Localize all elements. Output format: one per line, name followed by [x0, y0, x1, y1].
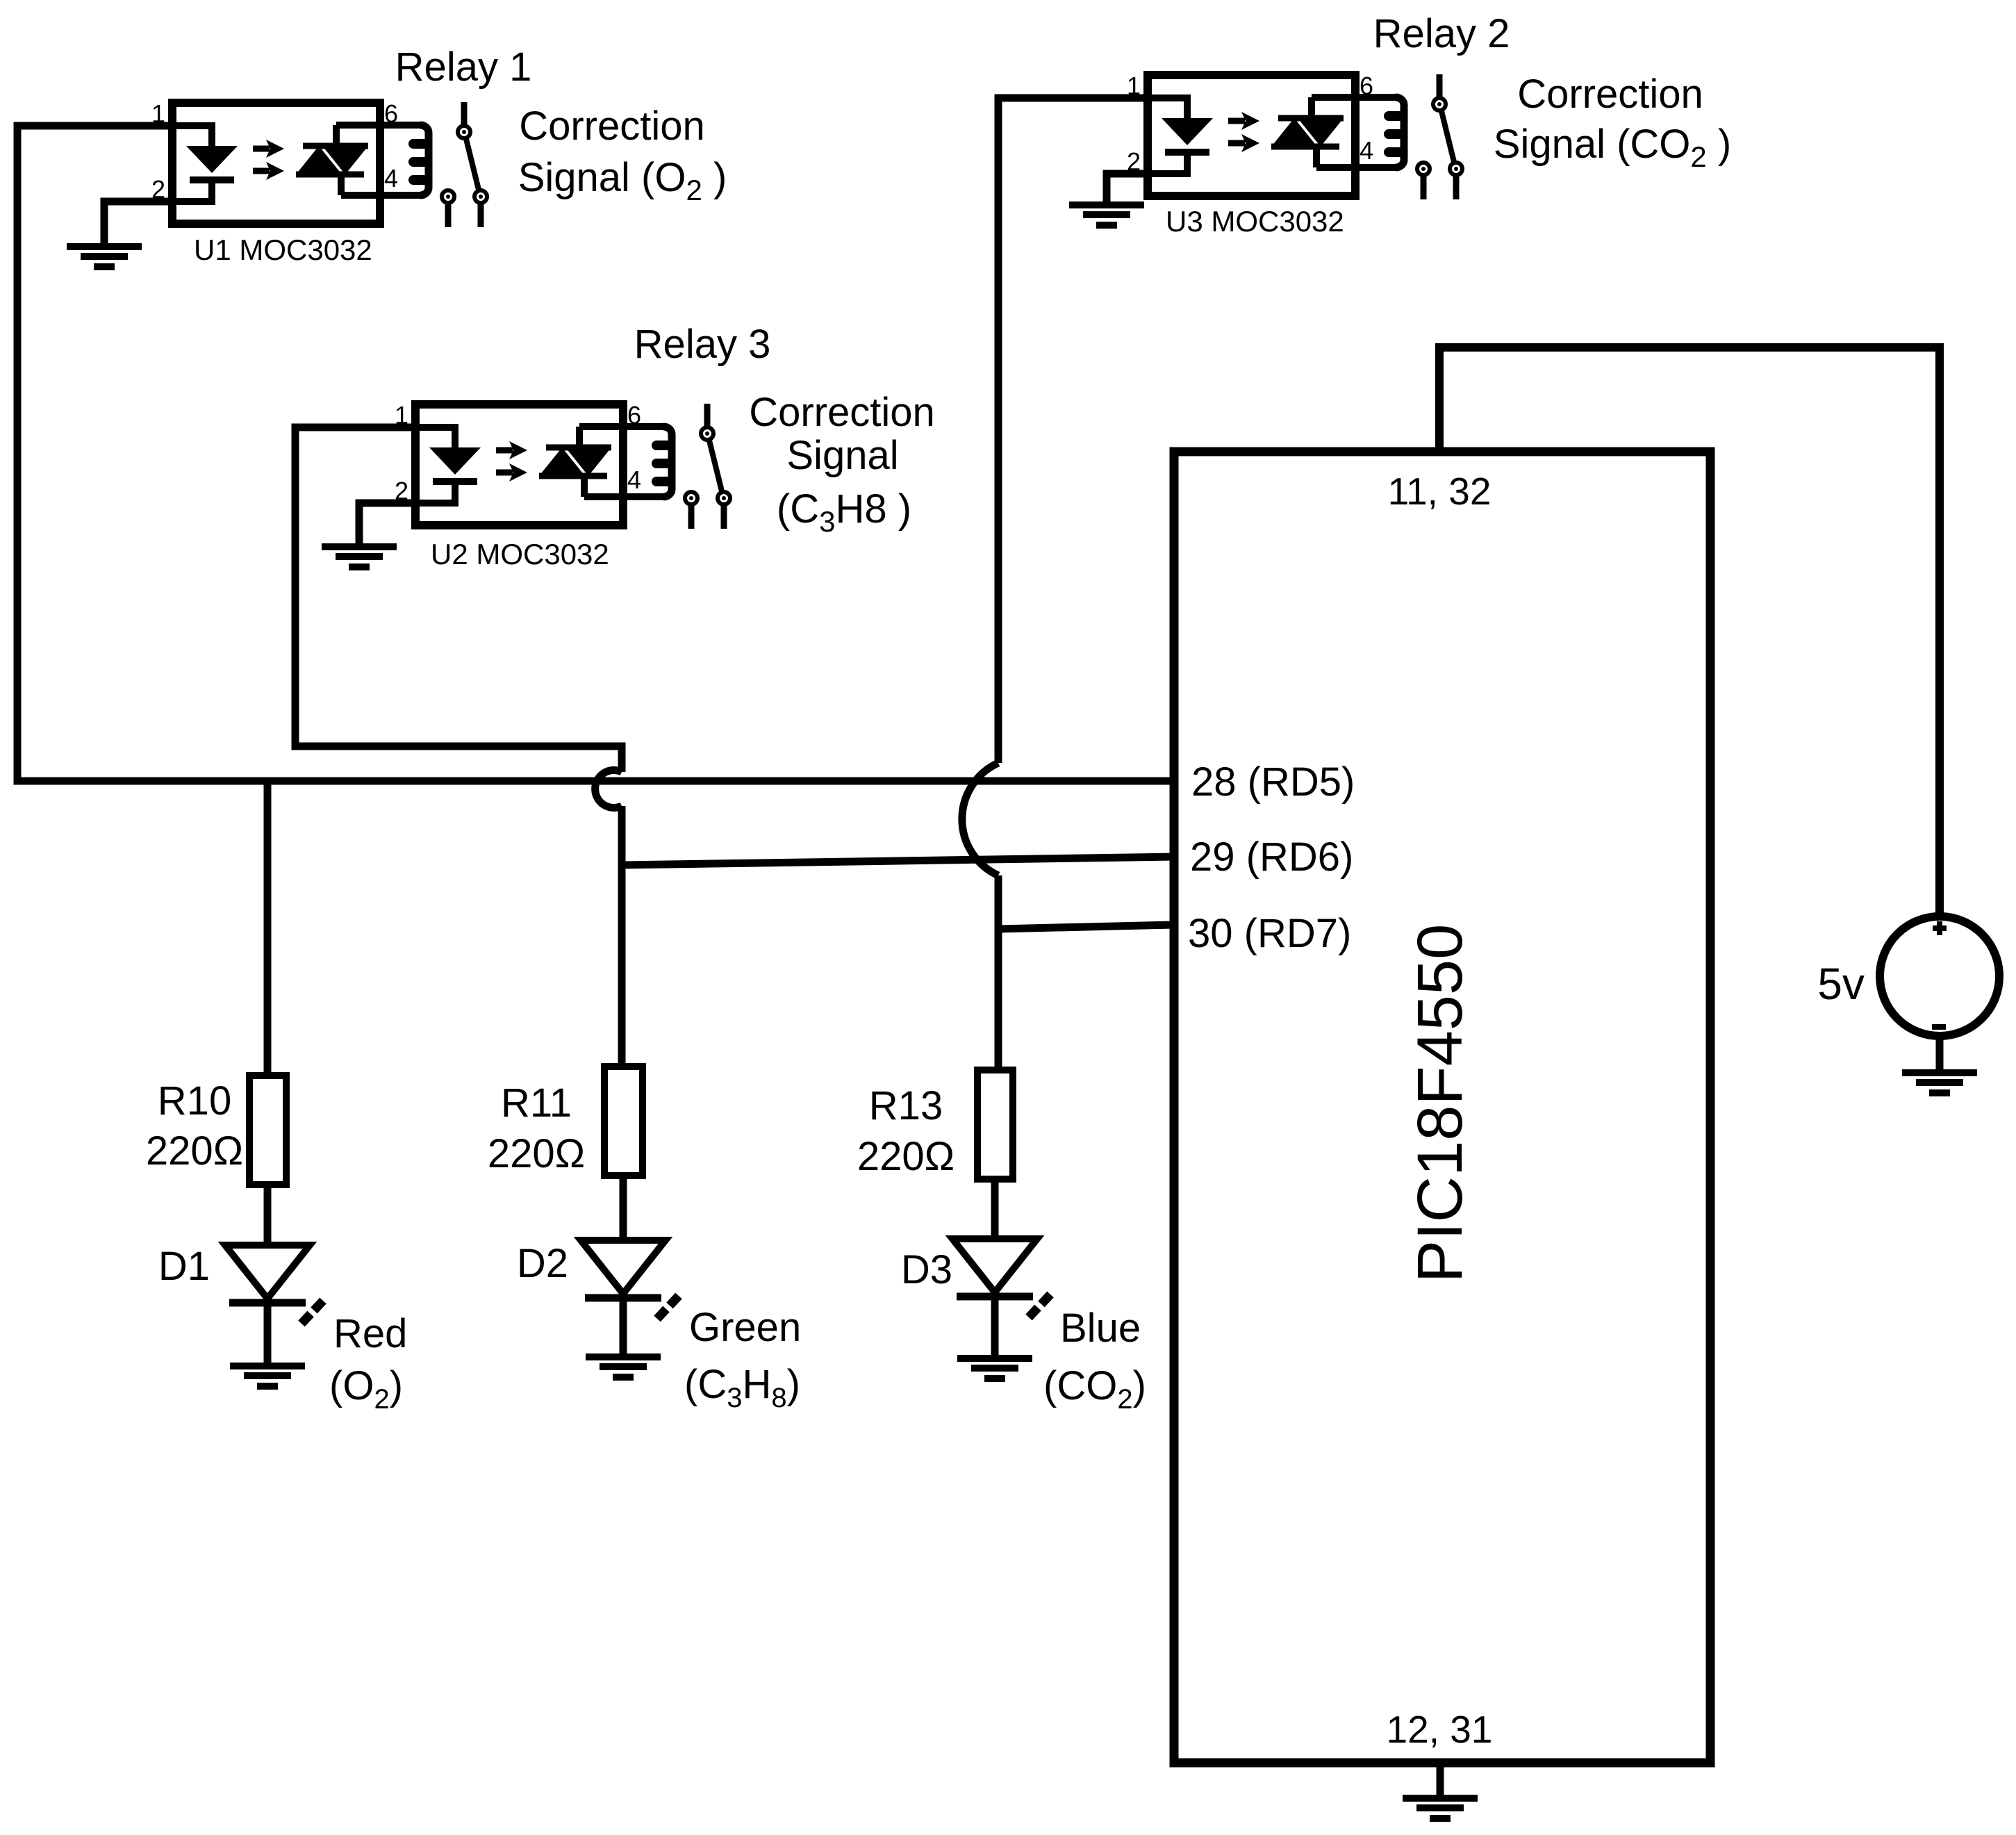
svg-text:Signal: Signal: [786, 433, 898, 478]
svg-text:220Ω: 220Ω: [488, 1131, 585, 1176]
svg-text:D2: D2: [517, 1241, 568, 1286]
svg-text:U2 MOC3032: U2 MOC3032: [431, 538, 609, 570]
svg-text:Correction: Correction: [1517, 72, 1703, 117]
svg-text:R11: R11: [501, 1080, 572, 1126]
wire hop over RD5 and RD6: [962, 763, 998, 875]
ground PIC 12,31: [1403, 1798, 1478, 1818]
wire R11 to D2: [620, 1172, 627, 1242]
wire D3 to ground: [991, 1297, 999, 1358]
wire U2 pin2 to ground: [359, 503, 415, 547]
ground D3: [957, 1358, 1032, 1379]
svg-text:5v: 5v: [1817, 959, 1865, 1009]
microcontroller U4 PIC18F4550: [1174, 452, 1710, 1763]
wire R13 to D3: [991, 1176, 999, 1241]
wire 5v supply from PIC 11,32: [1439, 347, 1940, 914]
wire net RD7 to PIC pin 30: [998, 925, 1174, 929]
svg-text:30 (RD7): 30 (RD7): [1188, 911, 1351, 956]
resistor R13: [977, 1070, 1013, 1179]
svg-text:U3 MOC3032: U3 MOC3032: [1166, 205, 1344, 238]
svg-text:Blue: Blue: [1060, 1306, 1141, 1351]
svg-text:29 (RD6): 29 (RD6): [1190, 834, 1353, 880]
svg-text:220Ω: 220Ω: [146, 1128, 243, 1174]
resistor R10: [249, 1076, 286, 1185]
svg-text:D1: D1: [158, 1244, 210, 1289]
wire R10 to D1: [264, 1181, 272, 1247]
svg-text:Correction: Correction: [519, 104, 705, 149]
wire net U3 pin1 down to big hop: [998, 98, 1148, 763]
svg-text:R10: R10: [158, 1078, 231, 1124]
wire D2 to ground: [620, 1298, 627, 1357]
svg-text:Relay 3: Relay 3: [634, 322, 771, 367]
ground U3: [1069, 205, 1144, 225]
wire U1 pin2 to ground: [104, 201, 172, 247]
wire hop over RD5: [595, 771, 622, 808]
wire from hop to R13: [995, 875, 1002, 1077]
svg-text:Correction: Correction: [749, 390, 935, 435]
wire net RD6 to PIC pin 29: [622, 857, 1174, 865]
ground D1: [230, 1366, 305, 1386]
wire net U2 pin1 down to hop: [295, 427, 622, 772]
svg-text:Relay 2: Relay 2: [1373, 11, 1510, 56]
svg-text:11, 32: 11, 32: [1388, 470, 1492, 513]
svg-text:28 (RD5): 28 (RD5): [1191, 759, 1355, 805]
wire branch to R10: [264, 781, 272, 1084]
svg-text:PIC18F4550: PIC18F4550: [1405, 924, 1476, 1283]
wire PIC 12,31 to ground: [1437, 1763, 1444, 1798]
resistor R11: [604, 1067, 643, 1176]
svg-text:U1 MOC3032: U1 MOC3032: [194, 233, 372, 266]
ground D2: [586, 1357, 661, 1377]
svg-text:D3: D3: [901, 1247, 952, 1292]
svg-text:R13: R13: [869, 1083, 943, 1128]
ground U1: [67, 247, 142, 267]
LED D3 blue: [952, 1239, 1050, 1317]
svg-text:12, 31: 12, 31: [1387, 1708, 1493, 1751]
LED D1 red: [225, 1245, 323, 1324]
opto U3 MOC3032 with relay 2: [1127, 72, 1462, 199]
wire D1 to ground: [264, 1303, 272, 1366]
svg-text:220Ω: 220Ω: [857, 1134, 955, 1179]
wire 5v to ground: [1936, 1039, 1944, 1074]
ground U2: [322, 547, 397, 567]
opto U1 MOC3032 with relay 1: [151, 99, 487, 227]
LED D2 green: [581, 1240, 679, 1319]
ground 5v: [1902, 1073, 1977, 1093]
wire from hop to R11: [618, 806, 626, 1073]
voltage source V1 5v: [1880, 916, 1999, 1036]
svg-text:Relay 1: Relay 1: [395, 44, 532, 90]
wire U3 pin2 to ground: [1107, 174, 1148, 205]
opto U2 MOC3032 with relay 3: [395, 401, 730, 529]
svg-text:(C3H8 ): (C3H8 ): [777, 486, 911, 538]
svg-text:(O2): (O2): [329, 1363, 403, 1415]
svg-text:Green: Green: [689, 1305, 801, 1350]
svg-text:Red: Red: [333, 1311, 407, 1356]
wire net RD5: U1 pin1 to PIC pin 28: [17, 126, 1174, 781]
